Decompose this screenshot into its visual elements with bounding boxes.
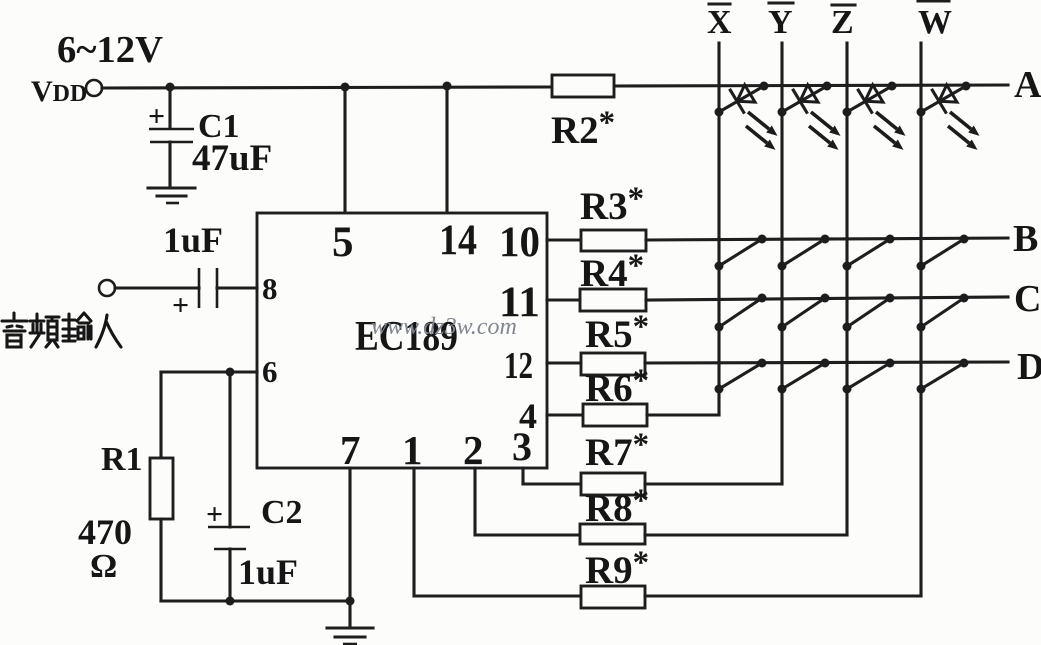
diode BW diagonal [917, 235, 969, 271]
svg-text:B: B [1013, 218, 1038, 260]
capacitor C1 47uF [168, 87, 171, 127]
terminal audio input [99, 280, 115, 296]
svg-text:X: X [707, 4, 732, 41]
node pin6-C2 [226, 368, 235, 377]
wire row B [646, 238, 1008, 240]
capacitor C2 1uF [228, 372, 231, 527]
svg-text:47uF: 47uF [192, 138, 272, 179]
wire pin2 to R8 [475, 468, 580, 535]
svg-text:D: D [1017, 346, 1041, 388]
wire row D [645, 362, 1008, 363]
wire pin10 to R3 [547, 238, 581, 241]
svg-text:A: A [1014, 64, 1041, 106]
diode CX diagonal [715, 294, 767, 332]
diode BZ diagonal [843, 235, 895, 271]
svg-text:2: 2 [463, 427, 484, 473]
wire R8 to Z column [645, 533, 847, 536]
svg-text:10: 10 [499, 219, 540, 266]
svg-text:7: 7 [340, 427, 361, 473]
node VDD-pin5 [341, 83, 350, 92]
svg-text:1: 1 [402, 427, 423, 473]
diode DX diagonal [715, 359, 767, 394]
wire VDD rail [102, 87, 552, 88]
diode DY diagonal [778, 359, 830, 394]
node VDD-C1 [166, 83, 175, 92]
svg-text:1uF: 1uF [163, 220, 223, 260]
svg-text:W: W [918, 4, 952, 41]
svg-text:+: + [172, 289, 189, 322]
resistor R8* [580, 524, 645, 544]
wire bottom net [161, 599, 350, 602]
diode DZ diagonal [843, 359, 895, 394]
svg-text:470: 470 [78, 512, 132, 552]
svg-text:R1: R1 [101, 441, 143, 478]
LED D1 (X column) [715, 82, 778, 150]
label Y bar [769, 1, 793, 4]
diode CY diagonal [778, 294, 830, 332]
label Z bar [832, 3, 855, 6]
label X bar [709, 2, 730, 5]
node VDD-pin14 [443, 82, 452, 91]
svg-text:R7*: R7* [585, 427, 649, 474]
diode CZ diagonal [843, 294, 895, 332]
svg-text:14: 14 [439, 217, 477, 264]
net W column [919, 43, 922, 596]
wire pin6 [161, 370, 257, 373]
wire pin1 to R9 [414, 468, 581, 596]
wire R7 to Y column [645, 482, 782, 485]
svg-text:6: 6 [262, 354, 278, 389]
net X column [717, 43, 720, 415]
net Y column [780, 43, 783, 484]
wire row C [646, 297, 1008, 300]
svg-text:VDD: VDD [31, 75, 87, 108]
net Z column [845, 43, 848, 535]
svg-text:Y: Y [768, 4, 793, 41]
svg-text:6~12V: 6~12V [57, 29, 164, 71]
wire R9 to W column [645, 594, 921, 597]
svg-text:5: 5 [332, 219, 354, 266]
resistor R2* [552, 75, 614, 97]
LED D4 (W column) [917, 82, 980, 150]
svg-text:R5*: R5* [585, 309, 649, 356]
label audio input (Chinese) [2, 313, 121, 347]
resistor R4* [580, 289, 646, 311]
wire pin7 [348, 468, 351, 601]
svg-text:Ω: Ω [90, 548, 117, 585]
op-amp U1 EC189 [257, 213, 547, 468]
resistor R1 [150, 458, 173, 519]
svg-text:Z: Z [831, 4, 854, 41]
resistor R5* [581, 353, 645, 375]
resistor R6* [583, 404, 647, 426]
ground under C1 [148, 186, 195, 189]
wire pin8 [217, 286, 257, 289]
svg-text:C2: C2 [261, 494, 303, 531]
resistor R7* [581, 473, 645, 495]
wire pin11 to R4 [547, 298, 580, 301]
label W bar [918, 0, 949, 3]
svg-text:8: 8 [262, 271, 278, 306]
resistor R9* [581, 586, 645, 608]
diode BX diagonal [715, 235, 767, 271]
LED D2 (Y column) [778, 82, 841, 150]
svg-text:C: C [1014, 278, 1041, 320]
diode BY diagonal [778, 235, 830, 271]
diode DW diagonal [917, 359, 969, 394]
ground main [327, 626, 373, 629]
svg-text:3: 3 [512, 424, 532, 469]
svg-text:www.dz3w.com: www.dz3w.com [371, 314, 517, 340]
svg-text:R2*: R2* [551, 105, 615, 152]
diode CW diagonal [917, 294, 969, 332]
svg-text:1uF: 1uF [238, 552, 298, 592]
wire pin4 to R6 [547, 413, 583, 416]
wire R6 to X column [647, 413, 719, 416]
resistor R3* [581, 230, 646, 251]
LED D3 (Z column) [843, 82, 906, 150]
wire pin3 to R7 [523, 468, 581, 484]
wire pin12 to R5 [547, 361, 581, 364]
svg-text:12: 12 [504, 345, 533, 387]
svg-text:R3*: R3* [580, 181, 644, 228]
